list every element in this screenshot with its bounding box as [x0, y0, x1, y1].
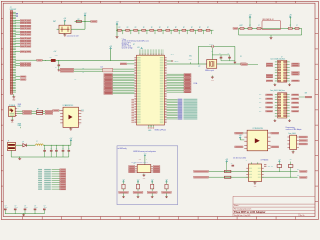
svg-text:3V3: 3V3 — [81, 110, 84, 112]
svg-text:3V3: 3V3 — [259, 102, 261, 104]
svg-text:R?: R? — [167, 27, 169, 29]
svg-text:GND: GND — [12, 99, 15, 101]
svg-text:J?: J? — [8, 140, 10, 142]
svg-text:LSE RT: LSE RT — [174, 61, 178, 63]
svg-text:+3V3: +3V3 — [137, 179, 140, 181]
svg-text:600R: 600R — [55, 55, 58, 57]
svg-text:100nF: 100nF — [5, 207, 9, 209]
svg-text:C?: C? — [296, 25, 298, 27]
svg-text:+3V3 , DD: +3V3 , DD — [267, 166, 273, 168]
svg-text:R?: R? — [199, 27, 201, 29]
svg-text:+3V3: +3V3 — [143, 153, 146, 155]
svg-text:3V3: 3V3 — [259, 94, 261, 96]
svg-text:Conn_02x10_Odd_Even: Conn_02x10_Odd_Even — [270, 90, 285, 92]
svg-text:+5V: +5V — [137, 47, 140, 49]
svg-text:R?: R? — [159, 27, 161, 29]
svg-text:VCC: VCC — [139, 159, 142, 161]
svg-text:Conn_02x08_Odd_Even: Conn_02x08_Odd_Even — [270, 58, 285, 60]
svg-text:PWR: PWR — [18, 106, 21, 108]
svg-text:+5V: +5V — [109, 46, 112, 48]
svg-text:PWR: PWR — [18, 123, 21, 125]
svg-text:D?: D? — [22, 141, 24, 143]
svg-text:R?: R? — [151, 27, 153, 29]
svg-text:RC: RC — [82, 72, 84, 74]
svg-text:U?: U? — [133, 44, 135, 46]
svg-text:100nF: 100nF — [34, 207, 38, 209]
svg-text:+5V: +5V — [116, 21, 119, 23]
svg-text:+3V3: +3V3 — [151, 179, 154, 181]
svg-text:C?: C? — [241, 25, 243, 27]
svg-text:R?: R? — [207, 27, 209, 29]
svg-text:OSC: OSC — [189, 55, 192, 57]
svg-text:+5V: +5V — [70, 138, 73, 140]
svg-text:R?: R? — [191, 27, 193, 29]
svg-text:GND: GND — [143, 178, 146, 180]
svg-text:+3V3: +3V3 — [122, 179, 125, 181]
svg-text:+5V: +5V — [84, 13, 87, 15]
svg-text:+5V: +5V — [63, 18, 66, 20]
svg-text:+5V: +5V — [289, 14, 292, 16]
svg-text:3V3: 3V3 — [259, 98, 261, 100]
svg-text:X1: X1 — [240, 56, 242, 58]
svg-text:100nF: 100nF — [24, 207, 28, 209]
svg-text:FB?: FB? — [49, 57, 52, 59]
svg-text:X?: X? — [198, 66, 200, 68]
svg-text:3V3: 3V3 — [259, 111, 261, 113]
svg-text:+3V3: +3V3 — [165, 179, 168, 181]
svg-text:100nF: 100nF — [15, 207, 19, 209]
svg-text:GND: GND — [11, 122, 14, 124]
svg-text:R?: R? — [119, 27, 121, 29]
svg-text:+5V: +5V — [239, 25, 241, 27]
svg-text:R?: R? — [175, 27, 177, 29]
svg-text:+5V: +5V — [225, 159, 228, 161]
svg-text:TRST: TRST — [189, 59, 192, 61]
svg-text:R?: R? — [127, 27, 129, 29]
svg-text:STM32 LQFP-100: STM32 LQFP-100 — [155, 129, 167, 131]
svg-text:100nF: 100nF — [44, 207, 48, 209]
svg-text:R?: R? — [135, 27, 137, 29]
svg-text:R?: R? — [37, 109, 39, 111]
svg-text:Thea RFP to LCD Adapter: Thea RFP to LCD Adapter — [234, 210, 266, 214]
svg-text:+5V: +5V — [74, 79, 76, 81]
svg-text:GND: GND — [148, 130, 151, 132]
svg-text:+3V3: +3V3 — [278, 159, 281, 161]
svg-text:U? SN74LVC2G: U? SN74LVC2G — [253, 128, 263, 130]
svg-text:+5V: +5V — [249, 14, 252, 16]
svg-text:VBUS: VBUS — [18, 104, 22, 106]
svg-text:R?: R? — [143, 27, 145, 29]
svg-text:RC: RC — [82, 67, 84, 69]
svg-text:3V3: 3V3 — [259, 107, 261, 109]
svg-text:J?: J? — [10, 7, 12, 9]
svg-text:SW?: SW? — [53, 21, 56, 23]
svg-text:GND: GND — [211, 80, 214, 82]
svg-text:SCL: SCL — [297, 174, 300, 176]
svg-text:Conn_01x04: Conn_01x04 — [288, 133, 296, 135]
svg-text:GND: GND — [254, 186, 257, 188]
svg-text:Com: Com — [100, 67, 103, 69]
svg-text:R?: R? — [78, 19, 80, 21]
svg-text:R?: R? — [183, 27, 185, 29]
svg-text:C?: C? — [258, 25, 260, 27]
svg-text:+5V: +5V — [54, 51, 57, 53]
svg-text:+5V: +5V — [239, 135, 242, 137]
svg-text:DD: DD — [290, 159, 292, 161]
svg-text:U?: U? — [134, 163, 136, 165]
svg-text:3V3: 3V3 — [305, 92, 308, 94]
svg-text:No. Sh.: No. Sh. — [300, 215, 305, 217]
